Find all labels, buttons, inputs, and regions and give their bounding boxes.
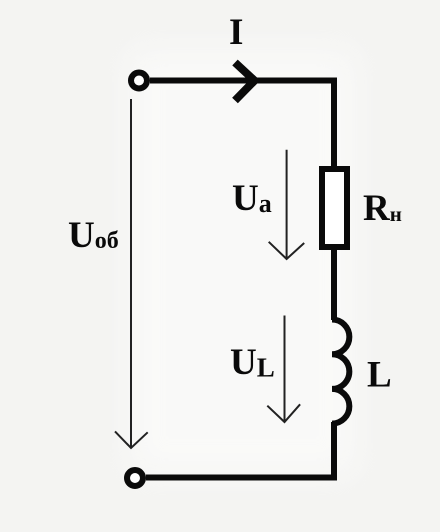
voltage arrow UL (middle lower, downward) (267, 316, 300, 423)
lighter interior of the loop (130, 50, 355, 475)
wire: top horizontal from terminal to right corner, down to resistor (150, 81, 334, 167)
resistor Rн (322, 169, 347, 247)
voltage arrow Ua (middle upper, downward) (269, 150, 305, 259)
wire: resistor bottom to inductor top (331, 247, 337, 320)
svg-text:I: I (229, 12, 243, 53)
top terminal (left input, open circle) (131, 73, 147, 89)
current arrowhead I (chevron on top wire) (235, 63, 255, 101)
svg-text:L: L (367, 355, 392, 396)
inductor L (3 loops bulging right) (332, 319, 349, 423)
bottom terminal (left, open circle) (127, 470, 143, 486)
voltage arrow Uоб (left, long, downward) (115, 99, 148, 448)
wire: inductor bottom to bottom-left corner and terminal (146, 422, 334, 478)
